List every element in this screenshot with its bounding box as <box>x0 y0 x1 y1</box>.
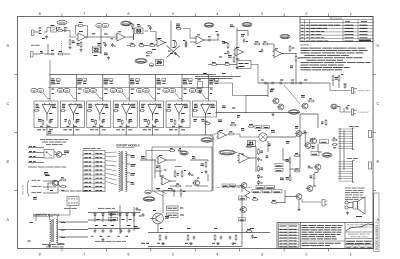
op-amp U1A <box>78 33 86 41</box>
jack at frame edge 2 <box>369 162 372 169</box>
junction drop x268 <box>267 83 269 97</box>
capacitor C1 <box>64 29 66 32</box>
wires transformer to rectifier <box>58 221 88 223</box>
power stage extra labels 5 <box>280 177 284 179</box>
input jack J1 HIGH <box>32 30 35 36</box>
series chain part 3 <box>279 82 281 85</box>
resistor R15a <box>233 58 235 62</box>
EQ stage 4 below-box label pair <box>116 129 120 131</box>
EQ stage 6 drop wire <box>181 75 183 102</box>
EQ stage 2 op-amp <box>69 105 78 114</box>
svg-text:NOTES:: NOTES: <box>300 45 309 47</box>
svg-text:4: 4 <box>216 12 218 16</box>
svg-text:C: C <box>376 102 379 106</box>
labels near 33 <box>137 24 140 26</box>
capacitor C22a <box>173 190 176 192</box>
capacitor C6a <box>208 39 210 42</box>
ground under R3a <box>69 46 71 47</box>
op-amp U5B <box>162 177 170 185</box>
svg-text:2: 2 <box>305 252 307 256</box>
wire footswitch out <box>54 151 56 153</box>
boxed label pair MB <box>256 186 265 189</box>
resistor R10a <box>150 45 154 47</box>
EQ stage 2 op-amp label <box>75 113 79 115</box>
capacitor C8a <box>227 51 230 53</box>
EQ stage 5 labels top-left <box>141 103 145 105</box>
filter capacitors row2 <box>120 230 123 232</box>
oval label treble <box>204 23 214 27</box>
dashed annotation row <box>28 166 37 168</box>
parts below output bus <box>218 119 222 121</box>
wire driver stage <box>235 134 259 137</box>
feedback resistor above U7B <box>247 146 251 148</box>
EQ feed wire from above <box>49 60 51 75</box>
resistor R28a <box>338 76 340 80</box>
resistor R7a <box>132 25 134 29</box>
EQ stage 6 labels bottom-left <box>170 119 173 121</box>
note under transformer <box>42 244 49 246</box>
labels on vertical <box>290 65 293 67</box>
EQ stage 2 labels bottom-right <box>76 119 80 121</box>
resistor R20a <box>61 179 65 181</box>
op-amp U1B <box>117 33 125 41</box>
return jack J4 <box>352 109 354 115</box>
dashed shield line input <box>61 41 63 53</box>
EQ stage 6 left resistor <box>167 110 170 112</box>
node join wire <box>68 31 77 38</box>
psu plus minus labels <box>95 225 98 227</box>
boxed label H2 <box>239 218 246 222</box>
EQ stage 4 labels top-right <box>131 103 135 105</box>
EQ stage 6 labels top-right <box>184 103 187 105</box>
voltage selector connector <box>67 197 79 206</box>
EQ stage 7 drop wire <box>207 75 209 102</box>
EQ stage 1 slider ovals <box>31 88 37 92</box>
EQ stage 1 labels top-left <box>36 103 39 105</box>
oval label reverb <box>289 110 300 115</box>
transistor Q2a <box>56 152 62 158</box>
resistor R6a <box>80 43 82 47</box>
power transformer T2 secondary <box>56 220 58 243</box>
boxed label Q12a <box>320 140 329 144</box>
psu labels bottom <box>95 240 100 242</box>
resistor R38a <box>295 170 299 172</box>
EQ stage 1 side labels <box>52 88 55 90</box>
wire buffer <box>269 43 274 45</box>
oval label channel <box>57 20 67 24</box>
EQ stage 4 oval stem <box>122 93 127 99</box>
signature scrawl <box>346 224 373 231</box>
EQ stage 4 left resistor <box>114 110 117 112</box>
svg-text:PREAMP OUT: PREAMP OUT <box>358 111 369 114</box>
AC line cord bracket <box>27 180 29 196</box>
export table fan-out wires <box>105 151 117 154</box>
label under Q3a <box>50 190 53 192</box>
EQ stage 4 output wire <box>125 114 127 121</box>
capacitor C7a <box>261 49 264 51</box>
EQ stage 6 labels top-left <box>168 103 172 105</box>
boxed label pair bias <box>275 164 283 167</box>
opto resistor box <box>198 82 203 89</box>
zone tick marks top edge <box>61 14 63 17</box>
wire U2B out <box>204 39 209 41</box>
EQ stage 7 oval stem <box>201 93 206 99</box>
vertical bus right1 <box>339 128 341 180</box>
op-amp U3B <box>274 50 282 58</box>
boxed label reg2 <box>167 213 179 218</box>
transformer lead labels right <box>61 222 65 224</box>
svg-text:2: 2 <box>305 12 307 16</box>
capacitor C15a <box>257 158 260 160</box>
EQ stage 6 slider ovals <box>163 88 169 92</box>
svg-text:3: 3 <box>261 252 263 256</box>
EQ stage 2 labels top-left <box>62 103 66 105</box>
labels right of footswitch <box>64 150 69 152</box>
boxed label H1 <box>239 196 247 200</box>
svg-text:7: 7 <box>83 12 85 16</box>
middle lower text rows <box>302 242 309 244</box>
resistor R9a <box>140 45 144 47</box>
rail bus wire <box>148 232 270 234</box>
diode D4a <box>257 182 260 184</box>
oval label power sw <box>143 197 155 201</box>
EQ stage 4 bottom resistor <box>121 121 123 125</box>
oval label fuse <box>145 190 151 194</box>
series chain part 5 <box>299 82 301 85</box>
wire FX row <box>217 64 224 66</box>
svg-text:3: 3 <box>261 12 263 16</box>
svg-text:6: 6 <box>128 252 130 256</box>
ground at speaker <box>347 212 349 213</box>
EQ stage 5 left resistor <box>141 110 144 112</box>
voltage selector label <box>64 207 71 209</box>
EQ stage 2 oval stem <box>69 93 74 99</box>
EQ stage 4 filter box <box>113 101 137 128</box>
EQ stage 5 labels top-right <box>158 103 162 105</box>
resistor R14a <box>227 44 229 48</box>
EQ stage 7 below-box labels <box>193 119 197 121</box>
svg-text:LINE CORD: LINE CORD <box>23 185 25 195</box>
EQ stage 1 labels bottom-right <box>50 119 54 121</box>
svg-text:1: 1 <box>350 252 352 256</box>
resistor R33a <box>205 163 207 167</box>
EQ stage 1 label cluster <box>51 78 55 80</box>
transistor Q9a <box>305 143 311 149</box>
input cluster labels <box>39 27 42 29</box>
EQ stage 4 labels top-left <box>115 103 119 105</box>
op-amp U7A <box>218 131 226 139</box>
EQ stage 2 slider ovals <box>57 88 63 92</box>
wire long vertical to send <box>295 54 297 57</box>
export transformer leads <box>127 154 130 156</box>
oval label footswitch <box>135 59 147 64</box>
wire main run <box>101 36 117 38</box>
resistor R18a <box>289 47 291 51</box>
EQ stage 7 slider ovals <box>189 88 195 92</box>
resistor R17a <box>264 43 268 45</box>
loop module box outline <box>152 147 212 191</box>
rail cluster 4 <box>235 236 237 240</box>
wire Q16a bottom <box>298 200 300 209</box>
send return pair wires <box>195 76 240 78</box>
EQ stage 7 output wire <box>204 114 206 135</box>
EQ stage 6 side labels <box>184 88 187 90</box>
EQ stage 4 bottom parts labels <box>119 125 122 127</box>
labels on output bus <box>222 105 226 107</box>
ground under R12a <box>175 52 177 53</box>
svg-text:EXPORT MODELS: EXPORT MODELS <box>116 143 139 147</box>
EQ stage 5 side labels <box>157 88 160 90</box>
boxed label pair TP <box>255 126 262 129</box>
parts list text <box>280 225 287 227</box>
EQ stage 3 labels top-left <box>88 103 92 105</box>
EQ stage 2 labels top-right <box>78 103 81 105</box>
wire harness links <box>241 186 243 192</box>
export table label <box>83 148 90 150</box>
transistor Q4a <box>194 180 200 186</box>
op-amp U5A <box>158 156 166 164</box>
EQ stage 6 oval stem <box>175 93 180 99</box>
relay box K1 <box>237 61 251 69</box>
EQ stage 3 left resistor <box>88 110 91 112</box>
wire U7B <box>235 152 237 154</box>
EQ stage 1 below-box label pair <box>37 129 41 131</box>
EQ stage 3 output wire <box>99 114 101 121</box>
transistor Q15a <box>241 207 247 213</box>
EQ stage 6 label cluster <box>183 78 188 80</box>
labels under U5A <box>156 165 160 167</box>
loop box extra labels <box>192 156 195 158</box>
svg-text:D: D <box>376 44 379 48</box>
EQ stage 7 side labels <box>210 88 213 90</box>
EQ stage 5 slider ovals <box>136 88 142 92</box>
diode D2a <box>199 91 202 93</box>
EQ stage 6 op-amp label <box>181 113 185 115</box>
wire loop in <box>140 159 156 161</box>
transformer lead labels left <box>30 222 33 224</box>
resistor R8a <box>131 45 135 47</box>
transistor Q12a <box>311 138 317 144</box>
diag wire to Q7a <box>284 85 300 104</box>
filter capacitors row1 <box>94 230 97 232</box>
EQ stage 5 bottom capacitor <box>154 120 157 122</box>
export connector table <box>83 151 105 192</box>
EQ stage 4 labels bottom-right <box>129 119 132 121</box>
parts cluster 243 <box>241 34 245 36</box>
input series resistor <box>58 30 62 32</box>
label at crossover <box>168 50 171 52</box>
psu extra labels <box>134 226 137 228</box>
labels left of loop box <box>141 156 145 158</box>
text rows below EQ <box>40 139 45 141</box>
resistor R12a <box>175 42 177 46</box>
ground at bus bottom <box>236 66 238 67</box>
capacitor C14a <box>205 171 208 173</box>
EQ stage 3 labels top-right <box>105 103 108 105</box>
labels top cluster <box>176 23 180 25</box>
resistor R11a <box>177 28 181 30</box>
resistor R3a <box>69 40 71 44</box>
EQ stage 3 labels bottom-right <box>102 119 105 121</box>
EQ stage 1 drop wire <box>49 75 51 102</box>
EQ stage 3 labels bottom-left <box>91 119 94 121</box>
transistor Q7a <box>302 103 308 109</box>
EQ stage 3 bottom parts labels <box>93 125 96 127</box>
EQ stage 2 drop wire <box>75 75 77 102</box>
EQ stage 2 below-box label pair <box>63 129 67 131</box>
wire 33 out <box>127 36 134 38</box>
resistor R30a <box>174 172 176 176</box>
EQ stage 3 oval stem <box>96 93 101 99</box>
EQ stage 3 side labels <box>104 88 107 90</box>
connector J5 fan wires <box>338 128 350 130</box>
power stage wire a <box>267 141 269 152</box>
staircase wire 2 <box>233 88 247 113</box>
oval label power amp <box>219 150 235 155</box>
capacitor C16a <box>308 166 311 168</box>
EQ stage 5 oval stem <box>149 93 154 99</box>
capacitor C10a <box>344 85 347 87</box>
EQ stage 3 op-amp label <box>102 113 105 115</box>
EQ stage 6 bottom capacitor <box>181 120 184 122</box>
EQ stage 5 filter box <box>140 101 164 128</box>
resistor R34a <box>229 133 233 135</box>
power stage wire b <box>282 148 284 160</box>
svg-text:TRANSTUBE SERIES: TRANSTUBE SERIES <box>350 235 369 238</box>
diagonal wire pair <box>153 191 164 197</box>
border frame <box>18 17 374 249</box>
EQ stage 2 bottom capacitor <box>75 120 78 122</box>
ground at J1 <box>46 36 48 37</box>
transistor Q8a <box>296 131 302 137</box>
EQ stage 2 labels bottom-left <box>64 119 67 121</box>
rectifier bus wires <box>88 212 140 214</box>
EQ stage 1 bottom capacitor <box>49 120 52 122</box>
labels bottom of loop box <box>156 188 160 190</box>
rectifier diodes D8-D10 <box>119 214 122 216</box>
EQ stage 6 bottom resistor <box>174 121 176 125</box>
regulator transistor Q14a <box>153 213 164 224</box>
capacitor C12a <box>178 149 180 152</box>
power stage extra labels 2 <box>268 143 271 145</box>
EQ stage 5 drop wire <box>155 75 157 102</box>
resistor R13a <box>185 42 187 46</box>
label right of trimmer <box>271 130 275 132</box>
svg-text:REVISIONS: REVISIONS <box>330 18 343 20</box>
EQ stage 2 filter box <box>60 101 84 128</box>
psu extra caps <box>136 208 139 210</box>
wire loop internal <box>170 180 176 182</box>
resistor R40a <box>313 175 315 179</box>
jack J1 contacts <box>39 30 41 32</box>
wire bus to next <box>237 30 248 32</box>
connector header J5 <box>353 128 355 150</box>
EQ stage 7 op-amp label <box>207 113 211 115</box>
vertical bus x237 <box>236 28 238 65</box>
capacitor C4a <box>111 44 114 46</box>
capacitor C2a <box>51 53 53 56</box>
resistor R19a <box>295 57 297 61</box>
oval label speaker fuse <box>322 153 332 158</box>
EQ stage 4 labels bottom-left <box>117 119 121 121</box>
resistor R25a <box>249 126 253 128</box>
svg-text:D: D <box>6 44 9 48</box>
curve from volume oval <box>131 26 134 41</box>
output emitter resistors <box>289 158 291 162</box>
diagonal wire crossover <box>167 46 181 58</box>
EQ stage 4 side labels <box>131 88 135 90</box>
EQ stage 5 bottom resistor <box>148 121 150 125</box>
svg-text:8: 8 <box>39 12 41 16</box>
svg-text:DOMESTIC MODELS: DOMESTIC MODELS <box>33 213 59 217</box>
small circle node <box>150 63 154 67</box>
ground under R6a <box>80 49 82 50</box>
EQ stage 7 label cluster <box>209 78 214 80</box>
resistor R16a <box>255 43 259 45</box>
resistor R42a <box>247 231 251 233</box>
export transformer T1 primary <box>119 152 121 192</box>
capacitor C13a <box>188 173 191 175</box>
ground rail dash-dot <box>217 187 252 189</box>
labels at bus top <box>230 24 233 26</box>
svg-text:6: 6 <box>128 12 130 16</box>
EQ stage 4 slider ovals <box>110 88 116 92</box>
rectifier diode labels <box>97 219 100 221</box>
boxed label pair TP2 <box>222 184 228 187</box>
EQ stage 7 labels top-right <box>210 103 214 105</box>
transformer T2 top leads <box>36 215 50 222</box>
label rows mid <box>44 172 48 174</box>
transistor Q13a <box>315 164 321 170</box>
power transformer T2 primary <box>50 220 52 243</box>
jack J2 label <box>40 51 43 53</box>
EQ stage 3 below-box label pair <box>90 129 94 131</box>
label INPUT <box>31 44 35 46</box>
EQ stage 7 op-amp <box>201 105 210 114</box>
EQ stage 1 bottom resistor <box>42 121 44 125</box>
series chain part 2 <box>271 82 273 85</box>
note text block right <box>345 187 351 189</box>
transistor Q6a <box>278 104 284 110</box>
EQ stage 2 bottom parts labels <box>66 125 69 127</box>
EQ stage 1 op-amp <box>42 105 51 114</box>
EQ stage 3 slider ovals <box>84 88 90 92</box>
connector J6 fan wires <box>338 161 350 163</box>
EQ stage 1 filter box <box>34 101 58 128</box>
op-amp U2B <box>196 36 204 44</box>
interlock label <box>62 190 69 192</box>
oval label volume <box>121 21 131 26</box>
wire gain pot stem <box>100 32 102 54</box>
oval label return <box>331 104 337 109</box>
capacitor C5a <box>149 27 152 29</box>
EQ stage 1 labels top-right <box>52 103 56 105</box>
EQ stage 5 op-amp <box>148 105 157 114</box>
connector J8 <box>322 200 325 207</box>
EQ stage 5 below-box label pair <box>143 129 147 131</box>
diag wire to master <box>210 135 215 140</box>
wire loop out vertical <box>212 135 214 191</box>
resistor R32a <box>176 185 180 187</box>
rail cluster 3 <box>214 236 216 240</box>
svg-text:POWER AMP IN: POWER AMP IN <box>358 89 371 92</box>
parts under U2A <box>152 49 156 51</box>
title lower dense rows <box>346 240 355 242</box>
EQ stage 6 bottom parts labels <box>172 125 175 127</box>
wire J2 to node <box>64 53 70 55</box>
bold number label <box>94 55 98 57</box>
resistor R27a <box>332 76 334 80</box>
